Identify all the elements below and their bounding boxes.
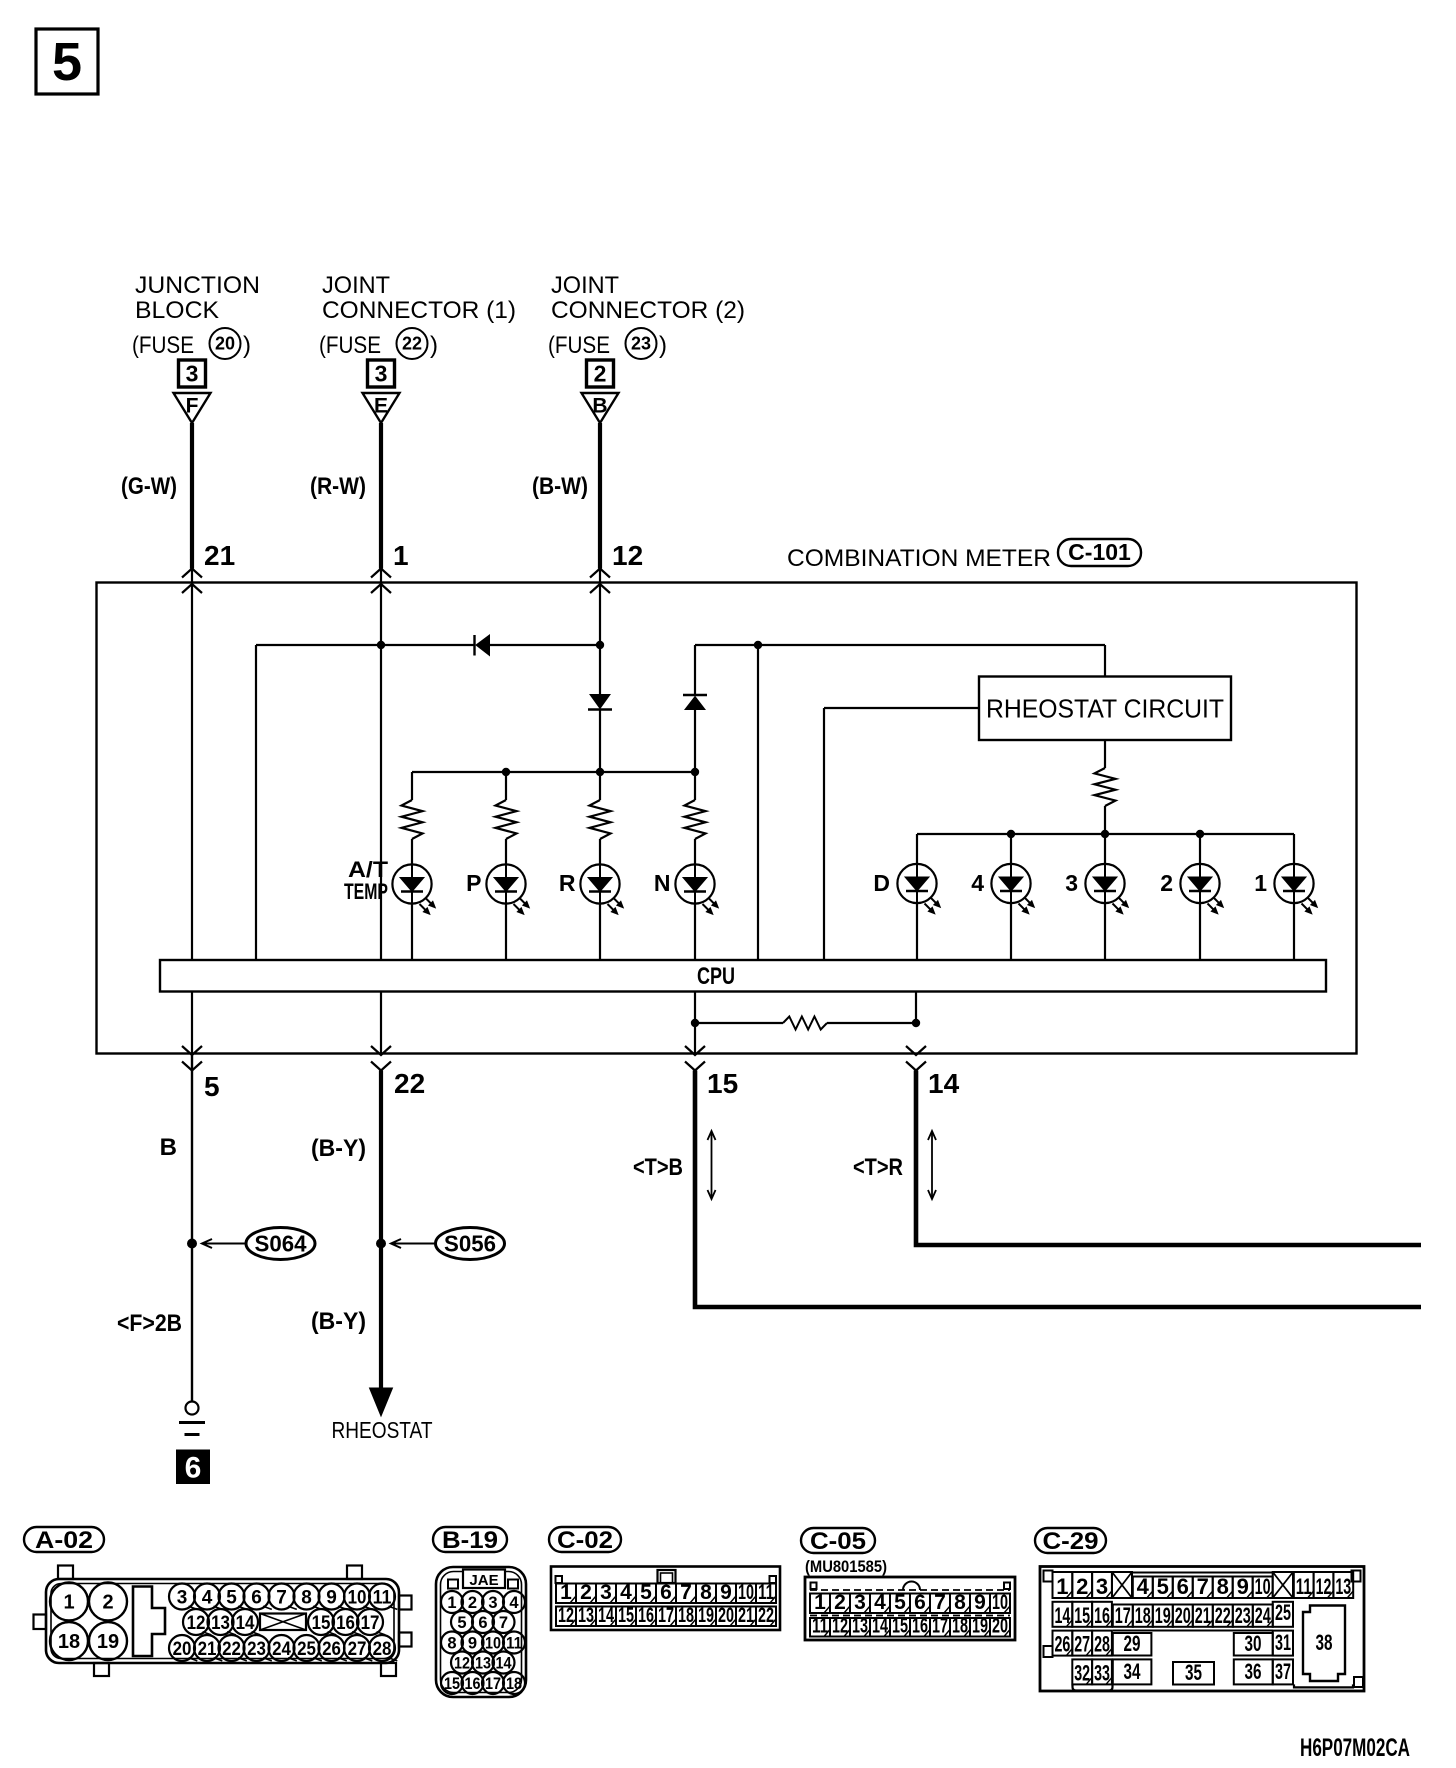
- svg-text:34: 34: [1124, 1659, 1142, 1684]
- svg-text:13: 13: [211, 1613, 230, 1634]
- svg-text:4: 4: [1137, 1574, 1150, 1599]
- svg-text:18: 18: [506, 1675, 522, 1693]
- svg-text:B: B: [160, 1134, 177, 1161]
- svg-text:17: 17: [658, 1604, 674, 1627]
- svg-text:E: E: [374, 395, 388, 418]
- svg-text:11: 11: [1296, 1574, 1312, 1599]
- svg-text:5: 5: [1157, 1574, 1169, 1599]
- connector label C-02: [549, 1527, 621, 1552]
- pin 14 exit: [906, 1046, 926, 1055]
- fuse number box 3: [368, 360, 395, 387]
- svg-text:24: 24: [1255, 1603, 1271, 1628]
- fuse number box 2: [587, 360, 614, 387]
- arrow to rheostat: [370, 1388, 393, 1416]
- svg-text:22: 22: [222, 1639, 241, 1660]
- svg-text:17: 17: [485, 1675, 501, 1693]
- svg-text:6: 6: [914, 1591, 926, 1614]
- svg-text:11: 11: [758, 1581, 774, 1604]
- svg-text:B-19: B-19: [442, 1527, 498, 1554]
- svg-text:B: B: [592, 395, 607, 418]
- svg-text:16: 16: [336, 1613, 355, 1634]
- svg-text:JAE: JAE: [469, 1572, 498, 1589]
- svg-text:RHEOSTAT: RHEOSTAT: [332, 1417, 433, 1443]
- wire horizontal right bus y645: [695, 644, 1105, 646]
- svg-text:3: 3: [177, 1587, 188, 1608]
- svg-text:1: 1: [1056, 1574, 1068, 1599]
- LED indicator 2: [1199, 834, 1201, 865]
- wire x758 down to CPU: [757, 645, 759, 960]
- svg-text:CONNECTOR (1): CONNECTOR (1): [322, 297, 516, 324]
- svg-text:5: 5: [894, 1591, 906, 1614]
- svg-text:36: 36: [1245, 1659, 1262, 1684]
- svg-text:13: 13: [578, 1604, 594, 1627]
- svg-text:3: 3: [186, 361, 199, 387]
- wire B-Y from pin22 to rheostat: [379, 1071, 383, 1393]
- svg-text:19: 19: [1155, 1603, 1171, 1628]
- resistor R5 below rheostat box: [1104, 740, 1106, 768]
- svg-text:25: 25: [1275, 1600, 1291, 1625]
- svg-text:2: 2: [102, 1592, 113, 1614]
- svg-text:38: 38: [1316, 1630, 1333, 1655]
- wire T B from pin15: [695, 1071, 1421, 1308]
- svg-text:12: 12: [454, 1655, 470, 1673]
- connector C-29 cavity 38: [1303, 1606, 1345, 1682]
- resistor column x695: [694, 772, 696, 800]
- diode D3 pointing up: [694, 645, 696, 694]
- svg-text:16: 16: [912, 1615, 928, 1638]
- svg-text:): ): [243, 332, 251, 359]
- svg-text:15: 15: [1074, 1603, 1090, 1628]
- wire CPU to pin5: [191, 992, 193, 1054]
- svg-text:C-02: C-02: [557, 1527, 613, 1554]
- diode D1 pointing left: [473, 635, 475, 656]
- connector label B-19: [433, 1527, 507, 1552]
- svg-text:21: 21: [198, 1639, 217, 1660]
- connector ref C-101: [1058, 539, 1141, 566]
- svg-text:S056: S056: [444, 1231, 496, 1257]
- resistor bus left group: [412, 771, 695, 773]
- svg-text:7: 7: [276, 1587, 287, 1608]
- wire (G-W): [190, 423, 194, 569]
- svg-text:(G-W): (G-W): [121, 473, 177, 500]
- pin 22 exit: [371, 1046, 391, 1055]
- connector C-05 cells: [810, 1594, 830, 1614]
- node junction x758: [754, 641, 762, 649]
- svg-text:22: 22: [1215, 1603, 1231, 1628]
- connector B-19 body: [436, 1567, 526, 1697]
- svg-text:9: 9: [1237, 1574, 1249, 1599]
- svg-text:TEMP: TEMP: [344, 879, 388, 904]
- svg-text:37: 37: [1275, 1659, 1291, 1684]
- svg-text:2: 2: [594, 361, 607, 387]
- svg-text:15: 15: [618, 1604, 634, 1627]
- svg-text:15: 15: [444, 1675, 460, 1693]
- svg-text:13: 13: [1335, 1574, 1351, 1599]
- svg-text:23: 23: [247, 1639, 266, 1660]
- svg-text:10: 10: [1255, 1574, 1271, 1599]
- twisted wire arrow 14: [931, 1131, 933, 1199]
- svg-text:27: 27: [348, 1639, 367, 1660]
- svg-text:18: 18: [952, 1615, 968, 1638]
- svg-text:9: 9: [468, 1635, 477, 1653]
- svg-text:JOINT: JOINT: [551, 272, 619, 299]
- connector C-29 body: [1040, 1567, 1364, 1692]
- wire pin12 vertical: [599, 569, 601, 695]
- svg-text:2: 2: [1160, 870, 1173, 896]
- svg-text:15: 15: [707, 1068, 738, 1099]
- svg-text:16: 16: [465, 1675, 481, 1693]
- svg-text:(FUSE: (FUSE: [548, 332, 610, 359]
- svg-text:1: 1: [814, 1591, 826, 1614]
- connector triangle F: [174, 393, 211, 423]
- CPU bar: [160, 960, 1326, 992]
- svg-text:BLOCK: BLOCK: [135, 297, 219, 324]
- svg-text:3: 3: [1065, 870, 1078, 896]
- svg-text:JUNCTION: JUNCTION: [135, 272, 260, 299]
- wire pin21 to CPU: [191, 569, 193, 960]
- wire T R from pin14: [916, 1071, 1421, 1246]
- connector triangle B: [582, 393, 619, 423]
- svg-text:4: 4: [509, 1594, 519, 1612]
- resistor column x600: [599, 772, 601, 800]
- svg-text:15: 15: [312, 1613, 331, 1634]
- svg-text:F: F: [186, 395, 199, 418]
- svg-text:27: 27: [1074, 1632, 1090, 1657]
- svg-text:2: 2: [468, 1594, 477, 1612]
- svg-text:R: R: [559, 870, 576, 896]
- node junction pin12 wire: [596, 641, 604, 649]
- connector label C-05: [801, 1528, 875, 1553]
- svg-text:1: 1: [393, 540, 409, 571]
- svg-text:20: 20: [215, 334, 235, 354]
- svg-text:11: 11: [506, 1635, 522, 1653]
- svg-text:12: 12: [612, 540, 643, 571]
- svg-text:4: 4: [202, 1587, 213, 1608]
- svg-text:1: 1: [1254, 870, 1267, 896]
- svg-text:3: 3: [375, 361, 388, 387]
- svg-text:26: 26: [322, 1639, 341, 1660]
- svg-text:14: 14: [928, 1068, 960, 1099]
- LED indicator 4: [1010, 834, 1012, 865]
- svg-text:18: 18: [678, 1604, 694, 1627]
- svg-text:31: 31: [1275, 1630, 1291, 1655]
- svg-text:2: 2: [834, 1591, 846, 1614]
- svg-text:N: N: [654, 870, 671, 896]
- svg-text:1: 1: [63, 1592, 74, 1614]
- svg-text:2: 2: [580, 1581, 592, 1604]
- connector label A-02: [24, 1527, 104, 1552]
- svg-text:32: 32: [1074, 1660, 1090, 1685]
- connector A-02 key way: [133, 1587, 165, 1657]
- svg-text:4: 4: [620, 1581, 632, 1604]
- pin 15 exit: [685, 1046, 705, 1055]
- svg-text:24: 24: [272, 1639, 291, 1660]
- svg-text:16: 16: [638, 1604, 654, 1627]
- svg-text:P: P: [466, 870, 481, 896]
- svg-text:<T>B: <T>B: [633, 1154, 683, 1181]
- svg-text:26: 26: [1054, 1632, 1070, 1657]
- svg-text:(FUSE: (FUSE: [319, 332, 381, 359]
- svg-text:2: 2: [1076, 1574, 1088, 1599]
- connector A-02 body: [46, 1579, 399, 1663]
- svg-text:6: 6: [251, 1587, 262, 1608]
- svg-text:12: 12: [1316, 1574, 1332, 1599]
- svg-text:7: 7: [1197, 1574, 1209, 1599]
- svg-text:C-05: C-05: [810, 1528, 866, 1555]
- svg-text:H6P07M02CA: H6P07M02CA: [1300, 1734, 1410, 1762]
- rheostat circuit box: [1104, 645, 1106, 677]
- svg-text:C-101: C-101: [1068, 539, 1131, 565]
- svg-text:JOINT: JOINT: [322, 272, 390, 299]
- splice S056: [376, 1239, 386, 1249]
- svg-text:6: 6: [185, 1452, 202, 1485]
- svg-text:17: 17: [361, 1613, 380, 1634]
- LED indicator R: [580, 864, 619, 903]
- svg-text:7: 7: [934, 1591, 946, 1614]
- svg-text:20: 20: [173, 1639, 192, 1660]
- svg-text:6: 6: [478, 1614, 487, 1632]
- svg-text:8: 8: [301, 1587, 312, 1608]
- svg-text:RHEOSTAT CIRCUIT: RHEOSTAT CIRCUIT: [986, 694, 1224, 724]
- splice S064: [187, 1239, 197, 1249]
- resistor between pin15 and pin14 wires: [691, 1019, 699, 1027]
- svg-text:3: 3: [1096, 1574, 1108, 1599]
- svg-text:C-29: C-29: [1043, 1528, 1099, 1555]
- svg-text:13: 13: [475, 1655, 491, 1673]
- svg-text:CONNECTOR (2): CONNECTOR (2): [551, 297, 745, 324]
- svg-text:A-02: A-02: [35, 1527, 93, 1554]
- svg-text:8: 8: [954, 1591, 966, 1614]
- svg-text:22: 22: [394, 1068, 425, 1099]
- svg-text:19: 19: [97, 1631, 119, 1653]
- wire rheostat box left to CPU: [824, 707, 979, 709]
- svg-text:18: 18: [1135, 1603, 1151, 1628]
- wire (B-W): [598, 423, 602, 569]
- connector label C-29: [1035, 1528, 1106, 1553]
- svg-text:<T>R: <T>R: [853, 1154, 903, 1181]
- LED bus right group: [917, 833, 1294, 835]
- svg-text:21: 21: [1195, 1603, 1211, 1628]
- page number box 5: [36, 29, 98, 94]
- wire pin1 to CPU: [380, 569, 382, 960]
- LED indicator P: [486, 864, 525, 903]
- svg-text:19: 19: [698, 1604, 714, 1627]
- wire B from pin5: [191, 1055, 193, 1402]
- connector C-02 cells: [556, 1584, 576, 1604]
- svg-text:CPU: CPU: [697, 963, 735, 990]
- LED indicator A/T TEMP: [392, 864, 431, 903]
- svg-text:): ): [430, 332, 438, 359]
- svg-text:6: 6: [1177, 1574, 1189, 1599]
- LED indicator 3: [1104, 834, 1106, 865]
- svg-text:14: 14: [598, 1604, 614, 1627]
- connector triangle E: [363, 393, 400, 423]
- svg-text:(MU801585): (MU801585): [805, 1557, 887, 1576]
- svg-text:11: 11: [812, 1615, 828, 1638]
- svg-text:5: 5: [640, 1581, 652, 1604]
- LED indicator 1: [1293, 834, 1295, 865]
- svg-text:33: 33: [1094, 1660, 1110, 1685]
- connector C-29 cells row3: [1053, 1631, 1073, 1656]
- svg-text:1: 1: [447, 1594, 456, 1612]
- connector C-29 cells row2: [1053, 1602, 1073, 1627]
- svg-text:(B-W): (B-W): [532, 473, 588, 500]
- svg-text:14: 14: [1054, 1603, 1070, 1628]
- svg-text:(B-Y): (B-Y): [311, 1135, 366, 1162]
- svg-text:3: 3: [488, 1594, 497, 1612]
- svg-text:11: 11: [373, 1587, 392, 1608]
- svg-text:28: 28: [1094, 1632, 1110, 1657]
- svg-text:21: 21: [738, 1604, 754, 1627]
- wire CPU to pin14: [915, 992, 917, 1024]
- svg-text:12: 12: [832, 1615, 848, 1638]
- svg-text:5: 5: [204, 1071, 220, 1102]
- combination meter box C-101: [97, 583, 1357, 1054]
- connector A-02 tabs: [58, 1566, 73, 1580]
- fuse number box 3: [179, 360, 206, 387]
- svg-text:19: 19: [972, 1615, 988, 1638]
- connector C-29 cells row1: [1053, 1572, 1073, 1598]
- svg-text:13: 13: [852, 1615, 868, 1638]
- pin 5 exit: [182, 1046, 202, 1055]
- connector C-02 body: [551, 1567, 780, 1631]
- svg-text:7: 7: [680, 1581, 692, 1604]
- connector A-02 small cavities: [169, 1584, 195, 1610]
- connector C-29 bottom tabs: [1073, 1685, 1113, 1691]
- svg-text:22: 22: [402, 334, 422, 354]
- svg-text:12: 12: [187, 1613, 206, 1634]
- svg-text:4: 4: [874, 1591, 886, 1614]
- svg-text:3: 3: [600, 1581, 612, 1604]
- svg-text:10: 10: [485, 1635, 501, 1653]
- svg-text:7: 7: [499, 1614, 508, 1632]
- svg-text:23: 23: [1235, 1603, 1251, 1628]
- svg-text:29: 29: [1124, 1631, 1141, 1656]
- svg-text:8: 8: [700, 1581, 712, 1604]
- svg-text:18: 18: [58, 1631, 80, 1653]
- svg-text:(R-W): (R-W): [310, 473, 366, 500]
- svg-text:8: 8: [1217, 1574, 1229, 1599]
- svg-text:10: 10: [348, 1587, 367, 1608]
- svg-text:1: 1: [560, 1581, 572, 1604]
- svg-text:15: 15: [892, 1615, 908, 1638]
- wire entry arrows: [182, 569, 202, 578]
- svg-text:9: 9: [326, 1587, 337, 1608]
- wire CPU to pin15: [694, 992, 696, 1054]
- svg-text:): ): [659, 332, 667, 359]
- svg-text:8: 8: [447, 1635, 456, 1653]
- svg-text:22: 22: [758, 1604, 774, 1627]
- wire CPU to pin22: [380, 992, 382, 1054]
- connector A-02 large cavities 1 2 18 19: [50, 1583, 88, 1621]
- svg-text:25: 25: [297, 1639, 316, 1660]
- svg-text:14: 14: [496, 1655, 513, 1673]
- svg-text:3: 3: [854, 1591, 866, 1614]
- svg-text:17: 17: [1115, 1603, 1131, 1628]
- svg-text:21: 21: [204, 540, 235, 571]
- ground symbol: [186, 1402, 199, 1415]
- connector B-19 cavities: [441, 1591, 463, 1613]
- diode D2 pointing down on pin12 wire: [590, 695, 610, 709]
- svg-text:28: 28: [373, 1639, 392, 1660]
- svg-text:(B-Y): (B-Y): [311, 1308, 366, 1335]
- svg-text:16: 16: [1094, 1603, 1110, 1628]
- svg-text:10: 10: [738, 1581, 754, 1604]
- resistor column x412: [411, 772, 413, 800]
- svg-text:5: 5: [52, 32, 82, 92]
- svg-text:14: 14: [236, 1613, 255, 1634]
- svg-text:23: 23: [631, 334, 651, 354]
- wire left branch down to CPU: [255, 645, 257, 960]
- wire horizontal left bus y645: [256, 644, 475, 646]
- svg-text:6: 6: [660, 1581, 672, 1604]
- svg-text:12: 12: [558, 1604, 574, 1627]
- connector B-19 JAE box: [463, 1570, 505, 1589]
- svg-text:5: 5: [226, 1587, 237, 1608]
- resistor column x506: [505, 772, 507, 800]
- twisted wire arrow 15: [711, 1131, 713, 1199]
- wire entry arrows: [590, 569, 610, 578]
- svg-text:20: 20: [718, 1604, 734, 1627]
- svg-text:9: 9: [974, 1591, 986, 1614]
- connector C-05 body: [805, 1577, 1015, 1640]
- wire entry arrows: [371, 569, 391, 578]
- svg-text:17: 17: [932, 1615, 948, 1638]
- svg-text:30: 30: [1245, 1631, 1262, 1656]
- svg-text:5: 5: [457, 1614, 466, 1632]
- svg-text:D: D: [873, 870, 890, 896]
- svg-text:COMBINATION METER: COMBINATION METER: [787, 545, 1051, 572]
- svg-text:20: 20: [992, 1615, 1008, 1638]
- page ref 6 box: [177, 1450, 210, 1484]
- svg-text:4: 4: [971, 870, 984, 896]
- svg-text:(FUSE: (FUSE: [132, 332, 194, 359]
- svg-text:14: 14: [872, 1615, 888, 1638]
- svg-text:20: 20: [1175, 1603, 1191, 1628]
- LED indicator N: [675, 864, 714, 903]
- svg-text:<F>2B: <F>2B: [117, 1310, 182, 1337]
- LED indicator D: [916, 834, 918, 865]
- connector C-29 cells row4: [1072, 1659, 1092, 1684]
- svg-text:10: 10: [992, 1591, 1008, 1614]
- node junction pin1 wire: [377, 641, 385, 649]
- svg-text:S064: S064: [255, 1231, 307, 1257]
- svg-text:35: 35: [1185, 1660, 1202, 1685]
- svg-text:9: 9: [720, 1581, 732, 1604]
- wire (R-W): [379, 423, 383, 569]
- connector A-02 blank key cell: [260, 1614, 306, 1631]
